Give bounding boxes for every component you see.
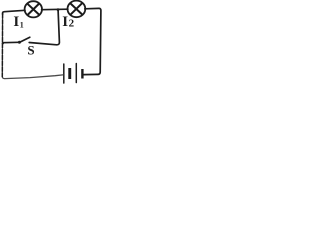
wire: between lamps [42,8,68,11]
label I2 [62,14,74,30]
wire: top-right, right side down to battery [84,8,101,74]
label I1 [13,14,23,30]
lamp L1 [25,1,42,17]
lamp L2 [68,1,86,18]
svg-text:I: I [13,14,19,30]
wire: switch branch, left segment [3,41,19,43]
wire: top-left corner segment to lamp L1 [3,10,25,14]
switch S blade [20,37,30,42]
switch S pivot dot [18,41,21,44]
svg-text:1: 1 [20,21,24,30]
node: left junction of switch branch [2,42,4,44]
svg-text:I: I [62,14,68,30]
wire: bottom from left corner to battery [2,75,63,79]
wire: left side vertical [1,14,3,77]
battery B1 [64,64,84,84]
svg-text:2: 2 [69,17,75,29]
svg-text:S: S [27,43,34,58]
node A junction dot [57,8,60,11]
wire: mid vertical branch down from node A with corner to switch [29,10,59,45]
